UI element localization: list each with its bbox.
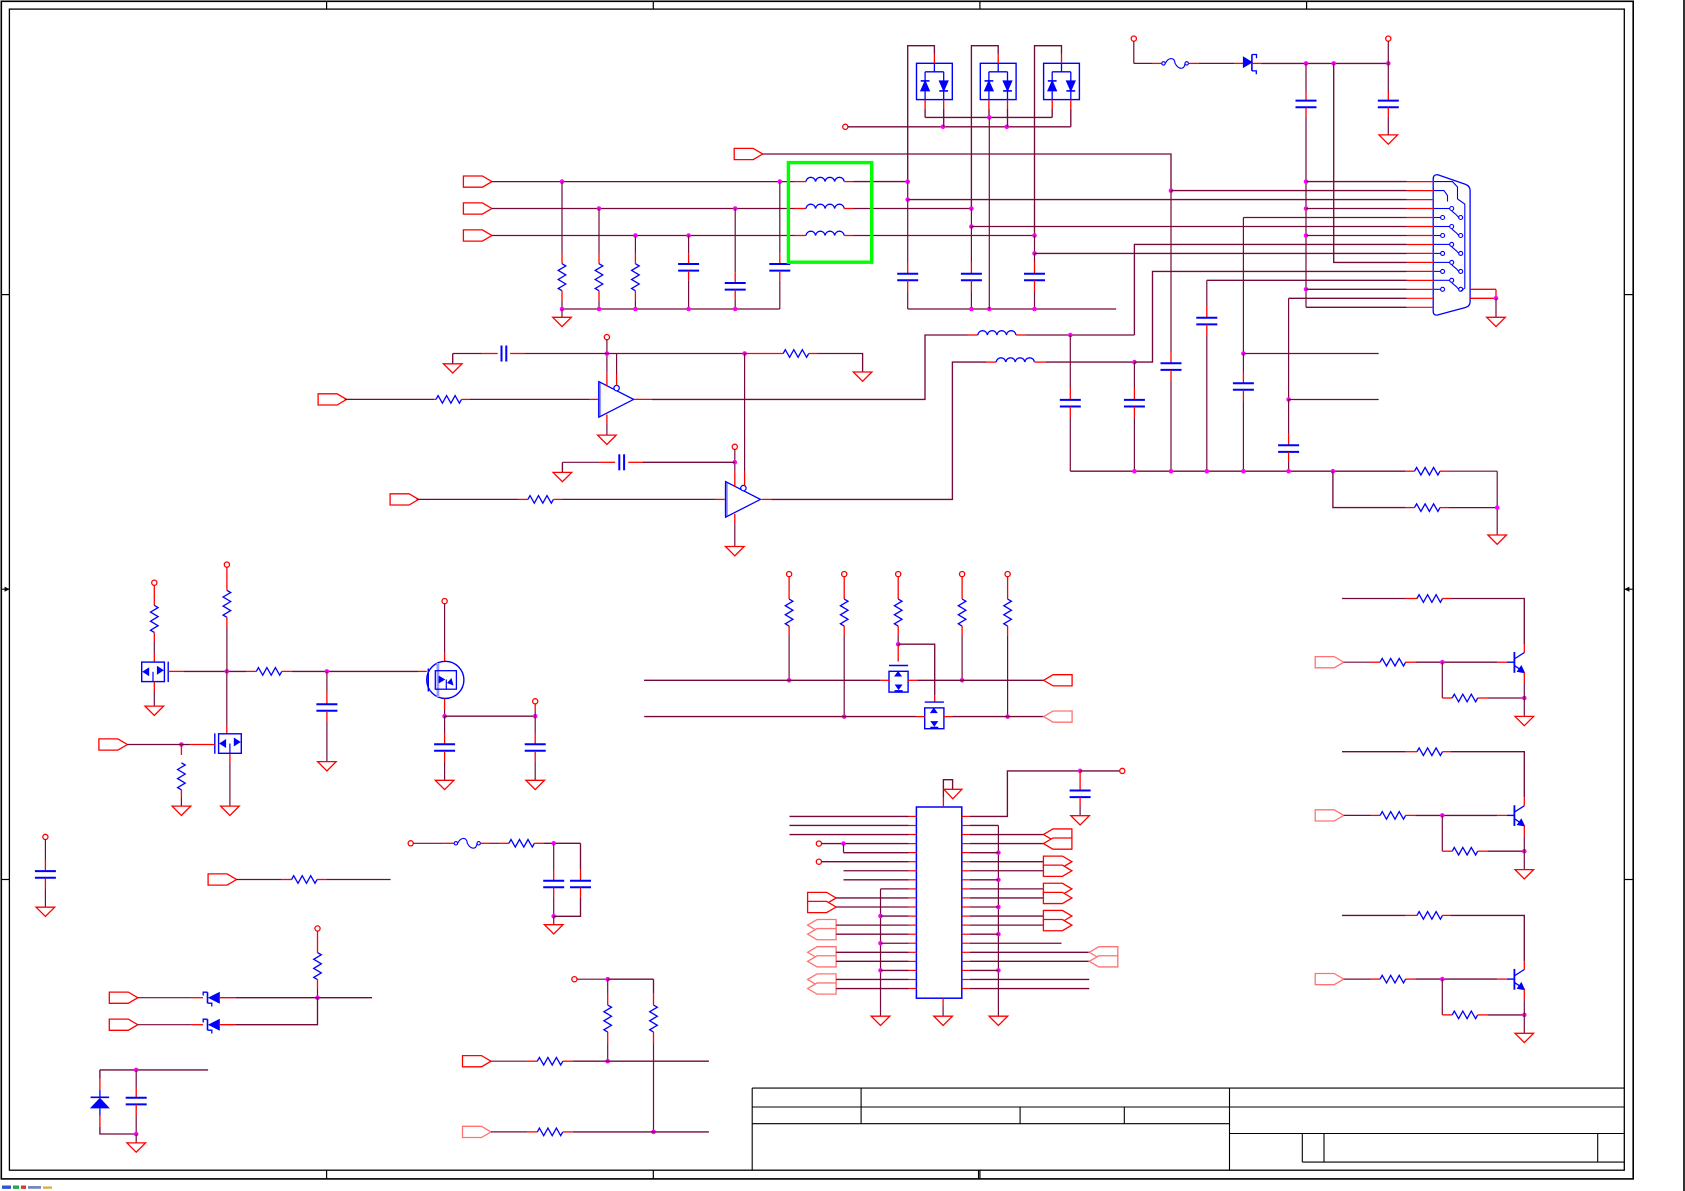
- junction: [179, 742, 184, 747]
- port D0: [808, 892, 837, 903]
- border tick: [1624, 879, 1633, 881]
- wire: [822, 861, 909, 863]
- wire: [790, 824, 909, 826]
- wire: [345, 398, 435, 400]
- ground: [318, 762, 337, 771]
- ground: [1071, 816, 1090, 825]
- capacitor C8: [618, 454, 620, 470]
- wire: [1334, 63, 1407, 262]
- wire: [1387, 41, 1389, 63]
- wire: [1289, 297, 1407, 299]
- wire: [1206, 280, 1208, 306]
- wire: [779, 280, 781, 309]
- junction: [633, 307, 638, 312]
- wire: [1523, 1000, 1525, 1015]
- wire: [183, 670, 246, 672]
- terminal VCC: [960, 572, 965, 577]
- wire: [226, 671, 228, 725]
- wire: [971, 46, 998, 209]
- wire: [534, 712, 536, 716]
- ground: [553, 472, 572, 481]
- resistor R8: [1415, 504, 1441, 512]
- wire: [970, 978, 1090, 980]
- wire: [606, 340, 608, 373]
- wire: [1306, 235, 1407, 237]
- wire: [561, 301, 563, 309]
- wire: [634, 236, 636, 254]
- junction: [533, 714, 538, 719]
- title block: [752, 1087, 1624, 1089]
- wire: [180, 798, 182, 806]
- wire: [470, 398, 589, 400]
- wire: [1171, 190, 1407, 192]
- wire: [1035, 46, 1062, 236]
- wire: [1441, 979, 1443, 1015]
- border tick: [979, 1170, 981, 1179]
- port A7: [1043, 920, 1072, 931]
- ground: [934, 1016, 953, 1025]
- TVS diode pack D1: [917, 63, 953, 99]
- window right edge: [1683, 0, 1685, 1191]
- junction: [1032, 233, 1037, 238]
- capacitor C23: [1070, 790, 1091, 792]
- capacitor C14: [1124, 399, 1145, 401]
- wire: [525, 353, 745, 355]
- wire: [844, 879, 909, 881]
- wire: [854, 181, 908, 183]
- wire: [491, 1060, 527, 1062]
- wire: [854, 208, 972, 210]
- resistor R29: [1380, 812, 1406, 820]
- wire: [1242, 354, 1244, 373]
- resistor R15: [604, 1005, 612, 1032]
- resistor R16: [650, 1005, 658, 1032]
- zener diode D5: [203, 992, 220, 1007]
- fuse F2: [454, 842, 457, 845]
- wire: [653, 979, 655, 993]
- wire: [544, 842, 581, 844]
- wire: [836, 988, 908, 990]
- corner artifact: [2, 1186, 52, 1189]
- resistor R28: [1417, 748, 1443, 756]
- border tick: [652, 1170, 654, 1179]
- wire: [598, 301, 600, 309]
- wire: [970, 933, 999, 935]
- wire: [561, 182, 563, 254]
- diode D7 LED: [90, 1090, 110, 1116]
- junction: [896, 642, 901, 647]
- junction: [1032, 251, 1037, 256]
- zener diode D4: [1243, 55, 1256, 75]
- wire: [643, 461, 735, 463]
- wire: [1342, 914, 1406, 916]
- terminal VCC33: [1120, 768, 1125, 773]
- wire: [1305, 117, 1307, 307]
- wire: [44, 889, 46, 907]
- port B1: [1089, 956, 1118, 967]
- wire: [790, 815, 909, 817]
- terminal CLK2: [816, 859, 821, 864]
- wire: [907, 182, 909, 200]
- resistor R26: [1380, 658, 1406, 666]
- capacitor: [525, 743, 546, 745]
- wire: [1034, 236, 1036, 254]
- port CTL2: [1315, 810, 1344, 821]
- port A2: [1043, 856, 1072, 867]
- wire: [970, 861, 1044, 863]
- resistor R7: [1415, 467, 1441, 475]
- wire: [970, 951, 1090, 953]
- TVS diode pack D2: [980, 63, 1016, 99]
- junction: [905, 197, 910, 202]
- junction: [969, 307, 974, 312]
- junction: [987, 115, 992, 120]
- junction: [1440, 977, 1445, 982]
- wire: [1289, 399, 1379, 401]
- wire: [562, 461, 599, 463]
- terminal VCC: [152, 580, 157, 585]
- MOSFET Q1: [142, 662, 169, 683]
- wire: [1344, 814, 1371, 816]
- wire: [1305, 63, 1307, 92]
- wire: [1170, 191, 1172, 352]
- port video R input: [463, 176, 492, 187]
- junction: [1440, 660, 1445, 665]
- resistor R19: [314, 953, 322, 980]
- port A3: [1043, 865, 1072, 876]
- ground: [435, 780, 454, 789]
- power flag ground: [944, 789, 962, 799]
- wire: [836, 951, 908, 953]
- wire: [844, 852, 909, 854]
- wire: [634, 301, 636, 309]
- wire: [1451, 915, 1525, 961]
- wire: [44, 840, 46, 861]
- wire: [1051, 109, 1053, 117]
- wire: [452, 354, 454, 364]
- wire: [688, 280, 690, 309]
- wire: [897, 636, 899, 644]
- wire: [644, 716, 916, 718]
- border centre arrow left: [1, 588, 9, 590]
- port A6: [1043, 910, 1072, 921]
- wire: [1134, 271, 1406, 362]
- ground: [544, 925, 563, 934]
- junction: [1331, 61, 1336, 66]
- wire: [1007, 636, 1009, 717]
- port video G input: [463, 203, 492, 214]
- resistor R27: [1452, 694, 1478, 702]
- resistor R33: [1452, 1011, 1478, 1019]
- ground: [36, 907, 55, 916]
- port AIN2: [390, 494, 419, 505]
- wire: [970, 843, 1044, 845]
- junction: [842, 714, 847, 719]
- port D2: [808, 920, 837, 931]
- MOSFET Q2: [215, 733, 242, 754]
- wire: [970, 960, 1090, 962]
- wire: [970, 824, 999, 826]
- wire: [924, 109, 926, 117]
- wire: [1523, 698, 1525, 716]
- wire: [843, 636, 845, 717]
- port OUT2: [1044, 711, 1073, 722]
- junction: [134, 1132, 139, 1137]
- port SENSE: [208, 874, 237, 885]
- ground: [1515, 1033, 1534, 1042]
- ground: [221, 806, 240, 815]
- wire: [970, 906, 999, 908]
- wire: [573, 1131, 709, 1133]
- wire: [1134, 62, 1153, 64]
- wire: [1133, 362, 1135, 388]
- port A4: [1043, 883, 1072, 894]
- wire: [1415, 661, 1497, 663]
- capacitor: [434, 743, 455, 745]
- wire: [836, 960, 908, 962]
- junction: [996, 905, 1001, 910]
- MOSFET Q3: [427, 661, 464, 698]
- resistor R11: [223, 590, 231, 617]
- junction: [1304, 206, 1309, 211]
- wire: [1523, 836, 1525, 851]
- junction: [996, 878, 1001, 883]
- wire: [1415, 978, 1497, 980]
- wire: [553, 843, 555, 869]
- wire: [970, 771, 1080, 817]
- wire: [1288, 400, 1290, 434]
- terminal P+: [1131, 36, 1136, 41]
- terminal VCC: [224, 562, 229, 567]
- junction: [778, 179, 783, 184]
- wire: [1079, 806, 1081, 816]
- wire: [1199, 62, 1235, 64]
- junction: [1169, 188, 1174, 193]
- wire: [734, 449, 736, 471]
- junction: [878, 914, 883, 919]
- op-amp U1: [599, 382, 634, 418]
- port EN: [99, 739, 128, 750]
- wire: [881, 888, 909, 890]
- wire: [942, 1006, 944, 1016]
- wire: [573, 1060, 709, 1062]
- junction: [1495, 505, 1500, 510]
- wire: [1035, 252, 1407, 254]
- junction: [987, 307, 992, 312]
- wire: [917, 679, 1043, 681]
- wire: [1441, 662, 1443, 698]
- junction: [1304, 233, 1309, 238]
- resistor R5: [783, 350, 809, 358]
- capacitor C12: [1378, 100, 1399, 102]
- wire: [492, 235, 794, 237]
- junction: [1386, 61, 1391, 66]
- inductor L4: [978, 331, 1016, 335]
- wire: [779, 182, 781, 254]
- wire: [127, 744, 172, 746]
- port B0: [1089, 947, 1118, 958]
- wire: [1488, 697, 1525, 699]
- wire: [1206, 336, 1208, 471]
- wire: [836, 897, 908, 899]
- wire: [854, 235, 1035, 237]
- wire: [1451, 752, 1525, 798]
- terminal VDD: [442, 599, 447, 604]
- wire: [135, 1070, 137, 1087]
- junction: [633, 233, 638, 238]
- wire: [326, 671, 328, 692]
- capacitor C17: [1278, 444, 1299, 446]
- port A5: [1043, 892, 1072, 903]
- resistor R18: [537, 1128, 563, 1136]
- wire: [1046, 361, 1134, 363]
- wire: [317, 989, 319, 998]
- wire: [598, 209, 600, 254]
- wire: [236, 998, 318, 1025]
- wire: [453, 353, 483, 355]
- junction: [1241, 469, 1246, 474]
- wire: [1133, 418, 1135, 471]
- junction: [1494, 296, 1499, 301]
- wire: [907, 200, 909, 262]
- wire: [688, 236, 690, 254]
- wire: [607, 1044, 609, 1061]
- wire: [970, 870, 1044, 872]
- junction: [134, 1068, 139, 1073]
- ground: [598, 435, 617, 444]
- terminal VCC: [315, 926, 320, 931]
- wire: [444, 604, 446, 653]
- resistor R4: [436, 396, 462, 404]
- wire: [970, 227, 972, 263]
- junction: [605, 351, 610, 356]
- capacitor C13: [1060, 399, 1081, 401]
- resistor R30: [1452, 847, 1478, 855]
- border tick: [1624, 294, 1633, 296]
- wire: [326, 722, 328, 762]
- capacitor C16: [1233, 382, 1254, 384]
- capacitor C4: [897, 273, 918, 275]
- capacitor C6: [1024, 273, 1045, 275]
- MOSFET Q4: [889, 666, 908, 693]
- capacitor C18: [316, 703, 337, 705]
- IC left pin stubs: [909, 816, 917, 988]
- junction: [742, 351, 747, 356]
- wire: [744, 354, 746, 472]
- wire: [444, 716, 446, 733]
- wire: [1288, 298, 1290, 399]
- junction: [325, 669, 330, 674]
- TVS diode pack D3: [1044, 63, 1080, 99]
- port video B input: [463, 230, 492, 241]
- wire: [961, 636, 963, 680]
- capacitor C22: [126, 1097, 147, 1099]
- junction: [733, 307, 738, 312]
- wire: [172, 744, 190, 746]
- wire: [327, 879, 391, 881]
- port D5: [808, 956, 837, 967]
- wire: [1288, 462, 1290, 471]
- wire: [138, 997, 192, 999]
- terminal VREF: [572, 977, 577, 982]
- op-amp U2: [726, 482, 761, 518]
- wire: [1243, 353, 1378, 355]
- junction: [225, 669, 230, 674]
- ground: [989, 1016, 1008, 1025]
- capacitor C11: [1296, 100, 1317, 102]
- wire: [1207, 279, 1407, 281]
- wire: [1342, 598, 1406, 600]
- wire: [652, 335, 968, 399]
- wire: [1449, 470, 1498, 472]
- junction: [551, 841, 556, 846]
- terminal CLK1: [816, 841, 821, 846]
- wire: [836, 924, 908, 926]
- capacitor C2: [725, 282, 746, 284]
- fuse F1: [1162, 62, 1165, 65]
- wire: [644, 679, 881, 681]
- wire: [292, 670, 418, 672]
- wire: [817, 354, 863, 373]
- resistor R31: [1417, 912, 1443, 920]
- border tick: [1, 879, 9, 881]
- ground: [526, 780, 545, 789]
- wire: [1488, 850, 1525, 852]
- wire: [844, 870, 909, 872]
- terminal V+: [732, 444, 737, 449]
- wire: [880, 889, 882, 1016]
- wire: [1488, 1014, 1525, 1016]
- junction: [651, 1130, 656, 1135]
- wire: [943, 109, 945, 127]
- border tick: [326, 1170, 328, 1179]
- wire: [445, 715, 536, 717]
- resistor R32: [1380, 975, 1406, 983]
- wire: [988, 117, 990, 309]
- wire: [822, 843, 909, 845]
- wire: [100, 1069, 208, 1071]
- wire: [1387, 117, 1389, 135]
- wire: [1070, 109, 1072, 127]
- resistor R12: [178, 763, 186, 790]
- ground: [172, 806, 191, 815]
- wire: [1495, 298, 1497, 317]
- junction: [1522, 1013, 1527, 1018]
- wire: [1034, 292, 1036, 309]
- wire: [790, 834, 909, 836]
- junction: [905, 179, 910, 184]
- wire: [836, 906, 908, 908]
- wire: [848, 126, 1071, 128]
- wire: [135, 1134, 137, 1143]
- wire: [153, 691, 155, 706]
- wire: [1441, 815, 1443, 851]
- wire: [836, 933, 908, 935]
- junction: [996, 850, 1001, 855]
- MOSFET Q5: [925, 702, 944, 729]
- port AIN1: [318, 394, 347, 405]
- border tick: [1, 294, 9, 296]
- border tick: [652, 1, 654, 9]
- wire: [607, 979, 609, 993]
- wire: [1415, 814, 1497, 816]
- wire: [229, 763, 231, 806]
- junction: [1032, 307, 1037, 312]
- ground: [1488, 535, 1507, 544]
- wire: [226, 627, 228, 671]
- port A1: [1043, 838, 1072, 849]
- terminal VCC: [1005, 572, 1010, 577]
